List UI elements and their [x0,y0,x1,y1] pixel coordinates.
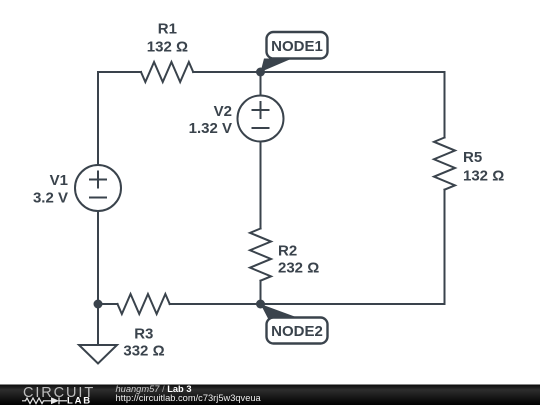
svg-text:V1: V1 [50,172,68,189]
svg-text:R1: R1 [158,21,177,38]
svg-text:V2: V2 [214,103,232,120]
wire left rail upper [97,72,99,165]
wire V2 bottom to R2 [260,142,262,229]
wire right rail lower [444,190,446,304]
svg-text:1.32 V: 1.32 V [189,120,232,137]
CircuitLab logo schematic line with resistor and diode [22,397,67,404]
wire top rail [98,71,141,73]
voltage source V1 [75,165,121,211]
node junction dot at NODE2 [256,300,265,309]
resistor R3 [118,294,170,314]
voltage source V2 [238,96,284,142]
svg-text:R2: R2 [278,243,297,260]
svg-text:R5: R5 [463,149,482,166]
svg-text:332 Ω: 332 Ω [123,342,164,359]
footer bar [0,385,540,405]
resistor R1 [141,62,193,82]
ground [79,304,117,364]
svg-text:R3: R3 [134,326,153,343]
wire left rail lower [97,211,99,304]
wire right rail upper [444,72,446,138]
wire top rail right of R1 [193,71,444,73]
resistor R2 [250,229,271,281]
svg-text:3.2 V: 3.2 V [33,190,68,207]
wire bottom left stub [98,303,118,305]
wire node1 to V2 top [260,72,262,96]
svg-text:NODE1: NODE1 [271,38,323,55]
wire R2 bottom to NODE2 [260,281,262,304]
resistor R5 [434,138,455,190]
node NODE2 callout [261,304,328,344]
svg-text:132 Ω: 132 Ω [147,39,188,56]
svg-text:LAB: LAB [67,396,92,405]
node NODE1 callout [261,32,328,72]
svg-text:132 Ω: 132 Ω [463,168,504,185]
node junction dot left bottom [94,300,103,309]
svg-text:NODE2: NODE2 [271,323,323,340]
svg-text:232 Ω: 232 Ω [278,260,319,277]
wire bottom rail [170,303,445,305]
svg-text:http://circuitlab.com/c73rj5w3: http://circuitlab.com/c73rj5w3qveua [116,393,262,403]
node junction dot at NODE1 [256,68,265,77]
